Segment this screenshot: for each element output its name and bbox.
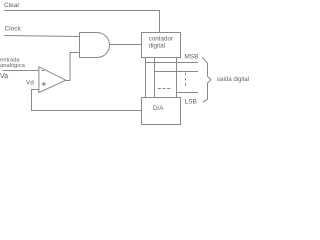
svg-text:saída digital: saída digital [217,77,249,83]
dashed continuation marks vertical (more bits) [185,73,187,86]
brace for saida digital [202,57,211,102]
wire AND gate output to counter clock input [110,44,142,46]
comparator minus sign [42,70,44,72]
AND gate G1 [80,33,110,58]
svg-text:Clock: Clock [5,26,22,33]
counter box (contador digital) [142,33,181,58]
svg-text:Clear: Clear [4,2,20,9]
D/A converter box [142,98,181,125]
wire MSB branch to digital output [146,62,199,64]
wire Clear net [4,11,160,33]
svg-text:Vd: Vd [26,79,34,86]
svg-text:LSB: LSB [185,98,197,105]
wire counter MSB bit vertical to D/A [145,58,147,98]
op-amp comparator U1 [39,67,66,93]
wire comparator output up to AND gate input [66,53,80,81]
svg-text:Va: Va [0,73,8,80]
svg-text:MSB: MSB [184,53,198,60]
wire bit 2 branch to digital output [155,71,199,73]
dashed continuation marks horizontal (more bits) [158,88,171,90]
wire analog input Va to comparator - input [3,70,39,72]
svg-text:digital: digital [149,43,165,50]
svg-text:contador: contador [149,36,174,43]
wire counter bit 2 vertical to D/A [154,58,156,98]
wire Clock net [4,36,80,37]
wire LSB branch to digital output [177,92,199,94]
wire counter LSB bit vertical to D/A [176,58,178,98]
svg-text:D/A: D/A [153,105,164,112]
comparator plus sign [42,83,46,85]
svg-text:analógica: analógica [0,63,26,69]
wire comparator + input with feedback from D/A [32,90,142,111]
